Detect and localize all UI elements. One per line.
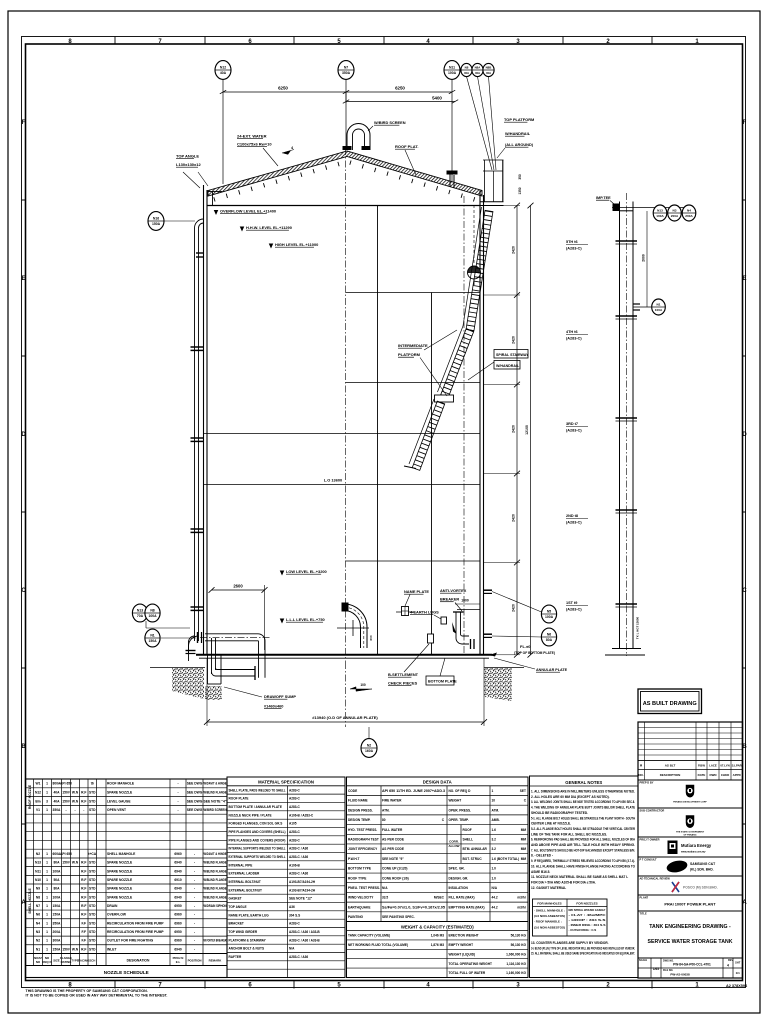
svg-text:REMARK: REMARK <box>209 958 223 962</box>
svg-text:N16: N16 <box>153 217 159 221</box>
svg-text:C: C <box>21 588 26 594</box>
svg-text:IT IS NOT TO BE COPIED OR USED: IT IS NOT TO BE COPIED OR USED IN ANY WA… <box>26 994 168 998</box>
svg-text:PIPE FLANGES AND COVERS (SHELL: PIPE FLANGES AND COVERS (SHELL) <box>229 830 286 834</box>
svg-text:OPER. TEMP.: OPER. TEMP. <box>449 818 470 822</box>
svg-text:N9: N9 <box>36 887 40 891</box>
svg-text:AS PER CODE: AS PER CODE <box>382 838 404 842</box>
svg-text:44.2: 44.2 <box>492 896 498 900</box>
svg-text:1: 1 <box>492 789 494 793</box>
svg-text:TK L HGT 13600: TK L HGT 13600 <box>636 617 640 640</box>
svg-text:N11: N11 <box>35 869 41 873</box>
svg-text:2000: 2000 <box>642 254 646 262</box>
svg-text:STD: STD <box>89 878 96 882</box>
svg-text:-: - <box>194 904 195 908</box>
svg-text:THIS DRAWING IS THE PROPERTY O: THIS DRAWING IS THE PROPERTY OF SAMSUNG … <box>26 989 148 993</box>
svg-text:(A283-C): (A283-C) <box>566 429 582 433</box>
svg-text:INTERMEDIATE: INTERMEDIATE <box>398 343 428 348</box>
svg-text:SEE DWG: SEE DWG <box>187 791 203 795</box>
svg-text:1,876 M3: 1,876 M3 <box>431 943 445 947</box>
svg-text:AS PER CODE: AS PER CODE <box>382 847 404 851</box>
svg-text:#1460x460: #1460x460 <box>264 704 283 709</box>
svg-text:SEE DWG: SEE DWG <box>187 799 203 803</box>
svg-text:t+CA: t+CA <box>88 852 96 856</box>
svg-text:THE STATE GOVERNMENT: THE STATE GOVERNMENT <box>676 831 705 834</box>
svg-text:A283-C / A36 / A33-B: A283-C / A36 / A33-B <box>289 938 320 942</box>
svg-text:H.H.W. LEVEL EL.+11290: H.H.W. LEVEL EL.+11290 <box>246 225 292 230</box>
svg-text:A105: A105 <box>289 822 297 826</box>
svg-text:FILL RATE (MAX): FILL RATE (MAX) <box>449 896 475 900</box>
svg-text:PAINTING: PAINTING <box>348 915 364 919</box>
svg-text:PREP D BY: PREP D BY <box>640 780 654 784</box>
svg-text:150A: 150A <box>53 904 62 908</box>
svg-text:SPIRAL STAIRWAY: SPIRAL STAIRWAY <box>496 353 529 357</box>
svg-text:m3/hr: m3/hr <box>517 896 526 900</box>
svg-text:100A: 100A <box>655 308 663 312</box>
svg-text:ANTI-VORTEX: ANTI-VORTEX <box>440 588 467 593</box>
svg-text:P.BW: P.BW <box>698 763 705 767</box>
svg-text:RECIRCULATION FROM FIRE PUMP: RECIRCULATION FROM FIRE PUMP <box>107 930 164 934</box>
svg-text:NOZZLE NECK PIPE / PLATE: NOZZLE NECK PIPE / PLATE <box>229 813 272 817</box>
svg-text:(A283-C): (A283-C) <box>566 247 582 251</box>
svg-text:14. BLIND (PLUG) TYPE OF LEVEL: 14. BLIND (PLUG) TYPE OF LEVEL INDICATOR… <box>531 946 635 950</box>
svg-text:SUB-CONTRACTOR: SUB-CONTRACTOR <box>640 808 665 812</box>
svg-text:N/A: N/A <box>382 886 388 890</box>
svg-text:(3.0 NON-ASBESTOS): (3.0 NON-ASBESTOS) <box>534 925 565 929</box>
svg-text:N2: N2 <box>367 744 371 748</box>
svg-text:40A: 40A <box>464 71 470 75</box>
svg-text:1: 1 <box>46 782 48 786</box>
svg-text:EXTERNAL SUPPORTS WELDED TO SH: EXTERNAL SUPPORTS WELDED TO SHELL <box>229 855 286 859</box>
svg-text:2ND t8: 2ND t8 <box>566 514 578 518</box>
svg-text:OF PENANG: OF PENANG <box>683 834 696 837</box>
svg-text:PENANG DEVELOPMENT CORP: PENANG DEVELOPMENT CORP <box>673 801 707 804</box>
svg-text:FULL WATER: FULL WATER <box>382 828 403 832</box>
svg-text:1: 1 <box>46 808 48 812</box>
svg-text:W/BIRD SCREEN: W/BIRD SCREEN <box>204 808 228 812</box>
svg-text:304 S.S: 304 S.S <box>289 913 300 917</box>
svg-text:- ROOF MANHOLE :: - ROOF MANHOLE : <box>534 920 562 924</box>
svg-text:BREAKER: BREAKER <box>440 597 459 602</box>
svg-text:SEE PAINTING SPEC.: SEE PAINTING SPEC. <box>382 915 415 919</box>
svg-text:BRACKET: BRACKET <box>229 922 244 926</box>
svg-text:CODE: CODE <box>348 789 357 793</box>
svg-text:NAME PLATE, EARTH LUG: NAME PLATE, EARTH LUG <box>229 913 270 917</box>
svg-text:W/BLIND FLANGE: W/BLIND FLANGE <box>204 861 228 865</box>
svg-text:W/DRAIN SIPHON: W/DRAIN SIPHON <box>204 904 228 908</box>
svg-text:PLATFORM: PLATFORM <box>398 352 421 357</box>
svg-text:SHELL NOZZLE: SHELL NOZZLE <box>28 887 32 913</box>
svg-text:50A: 50A <box>53 878 60 882</box>
svg-text:CORR.: CORR. <box>449 840 459 844</box>
svg-text:SAMSUNG C&T: SAMSUNG C&T <box>690 862 716 866</box>
svg-text:TOTAL OPERATING WEIGHT: TOTAL OPERATING WEIGHT <box>449 962 493 966</box>
svg-text:EARTHQUAKE: EARTHQUAKE <box>348 905 371 909</box>
svg-text:STD: STD <box>89 869 96 873</box>
svg-text:4-EARTH LUGS: 4-EARTH LUGS <box>410 610 439 615</box>
svg-text:W1: W1 <box>36 782 41 786</box>
svg-text:24-EXT. WATER: 24-EXT. WATER <box>237 134 267 139</box>
svg-text:OVERFLOW LEVEL EL.+11400: OVERFLOW LEVEL EL.+11400 <box>220 209 276 214</box>
svg-text:LOW LEVEL EL.+3200: LOW LEVEL EL.+3200 <box>286 569 327 574</box>
svg-text:160A: 160A <box>365 749 374 753</box>
svg-text:(KL) SDN. BHD.: (KL) SDN. BHD. <box>690 868 714 872</box>
svg-text:N11: N11 <box>449 66 455 70</box>
svg-text:N2: N2 <box>36 939 40 943</box>
svg-text:A283-C / A36: A283-C / A36 <box>289 955 308 959</box>
svg-text:REV: REV <box>728 959 733 962</box>
svg-text:N8: N8 <box>36 895 40 899</box>
svg-text:IMP.TEE: IMP.TEE <box>596 196 611 200</box>
svg-text:A106-B: A106-B <box>289 863 301 867</box>
svg-text:TOP PLATFORM: TOP PLATFORM <box>504 117 534 122</box>
svg-text:ANCHOR BOLT & NUTS: ANCHOR BOLT & NUTS <box>229 947 265 951</box>
svg-text:-: - <box>177 782 178 786</box>
svg-text:(TOP OF BOTTOM PLATE): (TOP OF BOTTOM PLATE) <box>514 651 555 655</box>
svg-text:AS BUILT DRAWING: AS BUILT DRAWING <box>643 701 697 707</box>
svg-text:P.W.H.T: P.W.H.T <box>348 857 360 861</box>
svg-text:6940: 6940 <box>174 861 182 865</box>
svg-text:SHT: SHT <box>735 961 741 965</box>
svg-text:7. ALL BOLTS/NUTS SHOULD BE HO: 7. ALL BOLTS/NUTS SHOULD BE HOT-DIP GALV… <box>531 848 635 852</box>
svg-text:#13940 (O.D OF ANNULAR PLATE): #13940 (O.D OF ANNULAR PLATE) <box>312 715 378 720</box>
svg-text:OPER. PRESS.: OPER. PRESS. <box>449 808 472 812</box>
svg-text:W.N: W.N <box>72 947 79 951</box>
svg-text:A106-B / A283-C: A106-B / A283-C <box>289 813 314 817</box>
svg-text:2420: 2420 <box>512 604 516 612</box>
svg-text:DESIGNATION: DESIGNATION <box>127 958 150 962</box>
svg-text:Mutiara Energy: Mutiara Energy <box>681 843 712 848</box>
svg-text:4: 4 <box>727 964 729 968</box>
svg-text:RAFTER: RAFTER <box>229 955 242 959</box>
svg-text:HIGH LEVEL EL.+11000: HIGH LEVEL EL.+11000 <box>275 242 318 247</box>
svg-text:INSULATION: INSULATION <box>449 886 469 890</box>
svg-text:OPEN VENT: OPEN VENT <box>107 808 126 812</box>
svg-text:BOT. STRUC: BOT. STRUC <box>463 857 483 861</box>
svg-text:INLET: INLET <box>107 947 117 951</box>
svg-text:-: - <box>194 861 195 865</box>
svg-text:ROOF NOZZLE: ROOF NOZZLE <box>28 784 32 809</box>
svg-text:4. THE WELDING OF ANNULAR PLAT: 4. THE WELDING OF ANNULAR PLATE BUTT JOI… <box>531 806 635 810</box>
svg-text:1.0: 1.0 <box>492 876 497 880</box>
svg-text:N/A: N/A <box>492 886 498 890</box>
svg-text:-: - <box>65 808 66 812</box>
svg-text:JOINT EFFICIENCY: JOINT EFFICIENCY <box>348 847 378 851</box>
svg-text:V1: V1 <box>36 808 40 812</box>
svg-text:5-1. ALL FLANGE BOLT HOLES SHA: 5-1. ALL FLANGE BOLT HOLES SHALL BE STRA… <box>531 816 636 820</box>
svg-text:DESIGN. GR.: DESIGN. GR. <box>449 876 469 880</box>
svg-text:Bm: Bm <box>35 799 40 803</box>
svg-text:SHELL PLATE, PADS WELDED TO SH: SHELL PLATE, PADS WELDED TO SHELL <box>229 788 286 792</box>
svg-text:8. - DELETED -: 8. - DELETED - <box>531 854 553 858</box>
svg-text:N1: N1 <box>657 303 661 307</box>
svg-text:6960: 6960 <box>174 913 182 917</box>
svg-text:1: 1 <box>46 947 48 951</box>
svg-text:GASKET: GASKET <box>229 897 242 901</box>
svg-text:DESCRIPTION: DESCRIPTION <box>660 773 681 777</box>
svg-text:80A: 80A <box>53 887 60 891</box>
svg-text:6940: 6940 <box>174 895 182 899</box>
svg-text:N8: N8 <box>150 609 154 613</box>
svg-text:A36: A36 <box>289 905 295 909</box>
svg-text:SHELL: SHELL <box>463 838 474 842</box>
svg-text:SEE NOTE "9": SEE NOTE "9" <box>382 857 404 861</box>
svg-text:-: - <box>194 887 195 891</box>
svg-text:L.L.L LEVEL EL.+750: L.L.L LEVEL EL.+750 <box>286 617 325 622</box>
svg-text:Ss/Fa=0.07x/1.0, S1/Fv=0.167x/: Ss/Fa=0.07x/1.0, S1/Fv=0.167x/2.05 <box>382 905 445 909</box>
svg-text:N12: N12 <box>35 791 41 795</box>
svg-text:WEIGHT (LIQUID): WEIGHT (LIQUID) <box>449 952 476 956</box>
svg-text:A283-C / A36 / A33-B: A283-C / A36 / A33-B <box>289 930 320 934</box>
svg-text:STD: STD <box>89 799 96 803</box>
svg-text:100A: 100A <box>545 615 554 619</box>
svg-text:DESIGN PRESS.: DESIGN PRESS. <box>348 808 373 812</box>
svg-text:B: B <box>21 744 26 750</box>
svg-text:W/DAVIT & HINGE: W/DAVIT & HINGE <box>204 782 228 786</box>
svg-text:www.mutiara.com.my: www.mutiara.com.my <box>681 851 706 854</box>
svg-text:-: - <box>194 869 195 873</box>
svg-text:BOTTOM PLATE / ANNULAR PLATE: BOTTOM PLATE / ANNULAR PLATE <box>229 805 282 809</box>
svg-text:DWN: DWN <box>710 773 717 777</box>
svg-text:D: D <box>742 432 747 438</box>
svg-text:N6: N6 <box>547 633 551 637</box>
svg-text:N4: N4 <box>36 921 40 925</box>
svg-text:W/BLIND FLANGE: W/BLIND FLANGE <box>204 791 228 795</box>
svg-text:STD: STD <box>89 921 96 925</box>
svg-text:EXTERNAL BOLT/NUT: EXTERNAL BOLT/NUT <box>229 888 262 892</box>
svg-text:RADIOGRAPH TEST: RADIOGRAPH TEST <box>348 838 379 842</box>
svg-text:BTM. ANNULAR: BTM. ANNULAR <box>463 847 488 851</box>
svg-text:80A: 80A <box>53 861 60 865</box>
svg-text:6960: 6960 <box>174 939 182 943</box>
svg-text:4TH t6: 4TH t6 <box>566 330 578 334</box>
svg-text:CONE ROOF (1/6): CONE ROOF (1/6) <box>382 876 409 880</box>
svg-text:A2 378X594: A2 378X594 <box>726 984 748 988</box>
svg-text:A283-C: A283-C <box>289 805 301 809</box>
svg-text:AMB.: AMB. <box>492 818 500 822</box>
svg-text:13. COUNTER FLANGES ARE SUPPLY: 13. COUNTER FLANGES ARE SUPPLY BY VENDOR… <box>531 941 609 945</box>
svg-text:W/HANDRAIL: W/HANDRAIL <box>505 131 531 136</box>
svg-text:07.LYN: 07.LYN <box>720 763 729 767</box>
svg-text:SPARE NOZZLE: SPARE NOZZLE <box>107 887 133 891</box>
svg-text:TOP WIND GIRDER: TOP WIND GIRDER <box>229 930 258 934</box>
svg-text:EXTERNAL LADDER: EXTERNAL LADDER <box>229 872 261 876</box>
svg-text:1.0: 1.0 <box>492 867 497 871</box>
svg-text:350A: 350A <box>53 808 62 812</box>
svg-text:WIND VELOCITY: WIND VELOCITY <box>348 896 374 900</box>
svg-text:AND ABOVE PIPE AND AIR TELL TA: AND ABOVE PIPE AND AIR TELL TALE HOLE WI… <box>531 843 635 847</box>
svg-text:W/VORTEX BREAKER: W/VORTEX BREAKER <box>204 939 227 943</box>
svg-text:SHOULD BE RADIOGRAPHY TESTED.: SHOULD BE RADIOGRAPHY TESTED. <box>531 811 588 815</box>
svg-text:-: - <box>194 939 195 943</box>
svg-text:E: E <box>742 276 746 282</box>
svg-text:C: C <box>442 818 445 822</box>
svg-text:A283-C: A283-C <box>289 922 301 926</box>
svg-text:N10: N10 <box>35 878 41 882</box>
svg-text:1,116,130 KG: 1,116,130 KG <box>506 962 526 966</box>
svg-text:6. REINFORCING PAD SHALL BE PR: 6. REINFORCING PAD SHALL BE PROVIDED FOR… <box>531 838 636 842</box>
svg-text:- INNER RING : 304 S.S: - INNER RING : 304 S.S <box>569 923 606 927</box>
svg-text:(A283-C): (A283-C) <box>566 337 582 341</box>
svg-text:F.F: F.F <box>81 939 86 943</box>
svg-text:-: - <box>177 808 178 812</box>
svg-text:R.F: R.F <box>81 878 86 882</box>
svg-text:W.N: W.N <box>72 791 79 795</box>
svg-text:1.6: 1.6 <box>492 828 497 832</box>
svg-text:5TH t6: 5TH t6 <box>566 240 578 244</box>
svg-text:N1: N1 <box>150 634 154 638</box>
svg-text:F.F: F.F <box>81 930 86 934</box>
svg-text:6250: 6250 <box>395 86 405 91</box>
svg-text:9. IF REQUIRED, THERMALLY STRE: 9. IF REQUIRED, THERMALLY STRESS RELIEVE… <box>531 859 635 863</box>
svg-text:R.F: R.F <box>81 869 86 873</box>
svg-text:1: 1 <box>46 887 48 891</box>
svg-text:STD: STD <box>89 939 96 943</box>
svg-text:2420: 2420 <box>512 514 516 522</box>
svg-text:E: E <box>21 276 25 282</box>
svg-text:W/BLIND FLANGE: W/BLIND FLANGE <box>204 887 228 891</box>
svg-text:NO.: NO. <box>638 773 644 777</box>
svg-text:1.6 (BOTH TOTAL): 1.6 (BOTH TOTAL) <box>492 857 520 861</box>
svg-text:1: 1 <box>46 921 48 925</box>
svg-text:DESIGN TEMP.: DESIGN TEMP. <box>348 818 371 822</box>
svg-text:PNEU. TEST PRESS.: PNEU. TEST PRESS. <box>348 886 380 890</box>
svg-text:40A: 40A <box>220 71 227 75</box>
svg-text:N3: N3 <box>673 209 677 213</box>
svg-text:W/BLIND FLANGE: W/BLIND FLANGE <box>204 878 228 882</box>
svg-text:N2: N2 <box>36 852 40 856</box>
svg-text:A283-C: A283-C <box>289 797 301 801</box>
svg-text:TOTAL FULL OF WATER: TOTAL FULL OF WATER <box>449 971 486 975</box>
svg-text:ALLOW: ALLOW <box>449 844 460 848</box>
svg-text:RECIRCULATION FROM FIRE PUMP: RECIRCULATION FROM FIRE PUMP <box>107 921 164 925</box>
svg-text:ROOF MANHOLE: ROOF MANHOLE <box>107 782 135 786</box>
svg-text:ANNULAR PLATE: ANNULAR PLATE <box>536 668 568 672</box>
svg-text:W.N: W.N <box>72 799 79 803</box>
svg-text:1/1: 1/1 <box>736 971 741 975</box>
svg-text:80A: 80A <box>546 638 553 642</box>
svg-text:2420: 2420 <box>512 336 516 344</box>
svg-text:-: - <box>194 921 195 925</box>
svg-text:CHECK PIECES: CHECK PIECES <box>388 681 418 686</box>
svg-text:150#: 150# <box>62 799 70 803</box>
svg-text:6960: 6960 <box>174 852 182 856</box>
svg-text:L.O 13600: L.O 13600 <box>324 478 342 483</box>
svg-text:1: 1 <box>46 895 48 899</box>
svg-text:W.N: W.N <box>72 861 79 865</box>
svg-text:STD: STD <box>89 861 96 865</box>
svg-text:W/DAVIT & HINGE: W/DAVIT & HINGE <box>204 852 228 856</box>
svg-text:6910: 6910 <box>174 878 182 882</box>
svg-text:N8B: N8B <box>486 66 492 70</box>
svg-text:40A: 40A <box>486 71 492 75</box>
svg-text:t6: t6 <box>91 782 94 786</box>
svg-text:A193-B7/A194-2H: A193-B7/A194-2H <box>289 888 316 892</box>
svg-text:DATE: DATE <box>698 773 706 777</box>
svg-text:P T CONSULT: P T CONSULT <box>640 857 657 861</box>
svg-text:DRAWOFF SUMP: DRAWOFF SUMP <box>264 694 296 699</box>
svg-text:ERECTION WEIGHT: ERECTION WEIGHT <box>449 934 479 938</box>
svg-text:3: 3 <box>46 799 48 803</box>
svg-text:STD: STD <box>89 930 96 934</box>
svg-text:- FLAT : 46x/MPC: - FLAT : 46x/MPC <box>569 913 607 917</box>
svg-text:W/BLIND FLANGE: W/BLIND FLANGE <box>204 869 228 873</box>
svg-text:INTERNAL BOLT/NUT: INTERNAL BOLT/NUT <box>229 880 261 884</box>
svg-text:5400: 5400 <box>432 95 442 100</box>
svg-text:SPEC. GR.: SPEC. GR. <box>449 867 465 871</box>
svg-text:W/HANDRAIL: W/HANDRAIL <box>496 364 520 368</box>
svg-text:LEVEL GAUGE: LEVEL GAUGE <box>107 799 131 803</box>
svg-text:A283-C / A36: A283-C / A36 <box>289 855 308 859</box>
svg-text:GENERAL NOTES: GENERAL NOTES <box>565 780 602 785</box>
svg-text:N5: N5 <box>547 610 551 614</box>
svg-text:(A283-C): (A283-C) <box>566 608 582 612</box>
svg-text:200A: 200A <box>53 930 62 934</box>
svg-text:2. ALL HOLES ARE 60 MM DIA (EX: 2. ALL HOLES ARE 60 MM DIA (EXCEPT AS NO… <box>531 795 610 799</box>
svg-text:N6: N6 <box>36 913 40 917</box>
svg-text:STD: STD <box>89 808 96 812</box>
svg-text:-: - <box>194 913 195 917</box>
svg-text:POSCO (M) SDN.BHD.: POSCO (M) SDN.BHD. <box>683 886 718 890</box>
svg-text:STD: STD <box>89 913 96 917</box>
svg-text:SIZE: SIZE <box>53 958 59 962</box>
svg-text:B-SETTLEMENT: B-SETTLEMENT <box>388 672 419 677</box>
svg-text:N/A: N/A <box>289 947 295 951</box>
svg-text:STD: STD <box>89 791 96 795</box>
svg-text:OVERFLOW: OVERFLOW <box>107 913 127 917</box>
svg-text:-: - <box>194 895 195 899</box>
svg-text:-: - <box>194 878 195 882</box>
svg-text:N7: N7 <box>36 904 40 908</box>
svg-text:M/SEC: M/SEC <box>434 896 445 900</box>
svg-text:-: - <box>83 808 84 812</box>
svg-text:FOR NOZZLES: FOR NOZZLES <box>576 901 597 905</box>
svg-text:NET WORKING FLUID TOTAL (VOLUM: NET WORKING FLUID TOTAL (VOLUME) <box>348 943 408 947</box>
svg-text:CENTER LINE AT NOZZLE.: CENTER LINE AT NOZZLE. <box>531 822 571 826</box>
svg-text:6940: 6940 <box>174 869 182 873</box>
svg-text:100A: 100A <box>656 214 664 218</box>
svg-text:SERVICE WATER STORAGE TANK: SERVICE WATER STORAGE TANK <box>648 939 733 945</box>
svg-text:SET: SET <box>520 789 526 793</box>
svg-text:NO. OF REQ D: NO. OF REQ D <box>449 789 472 793</box>
svg-text:150A: 150A <box>53 913 62 917</box>
svg-text:(ALL AROUND): (ALL AROUND) <box>505 142 534 147</box>
svg-text:150#: 150# <box>62 861 70 865</box>
svg-text:R.F: R.F <box>81 947 86 951</box>
svg-text:SEE DWG: SEE DWG <box>187 782 203 786</box>
svg-text:NOZZLE SCHEDULE: NOZZLE SCHEDULE <box>104 970 149 975</box>
svg-text:3RD t7: 3RD t7 <box>566 422 578 426</box>
svg-text:SPARE NOZZLE: SPARE NOZZLE <box>107 895 133 899</box>
svg-text:MM: MM <box>521 857 527 861</box>
svg-text:A193-B7/A194-2H: A193-B7/A194-2H <box>289 880 316 884</box>
svg-text:1: 1 <box>46 852 48 856</box>
svg-text:PLANT: PLANT <box>640 895 649 899</box>
svg-text:EMPTYING RATE (MAX): EMPTYING RATE (MAX) <box>449 905 485 909</box>
svg-text:TOP ANGLE: TOP ANGLE <box>176 154 199 159</box>
svg-text:N13: N13 <box>137 609 143 613</box>
svg-text:100A: 100A <box>148 614 157 618</box>
svg-text:6950: 6950 <box>174 904 182 908</box>
svg-text:FOR DIA > 50A AND A105-B FOR D: FOR DIA > 50A AND A105-B FOR DIA ≤ 50A. <box>531 880 596 884</box>
svg-text:PRAI 1000T POWER PLANT: PRAI 1000T POWER PLANT <box>664 902 716 907</box>
svg-text:-: - <box>177 791 178 795</box>
svg-text:1000: 1000 <box>461 599 469 603</box>
svg-text:ATM.: ATM. <box>492 808 500 812</box>
svg-text:WEIGHT: WEIGHT <box>449 799 462 803</box>
svg-text:70A: 70A <box>137 614 144 618</box>
svg-text:LACE: LACE <box>709 763 717 767</box>
svg-text:100A: 100A <box>448 71 457 75</box>
